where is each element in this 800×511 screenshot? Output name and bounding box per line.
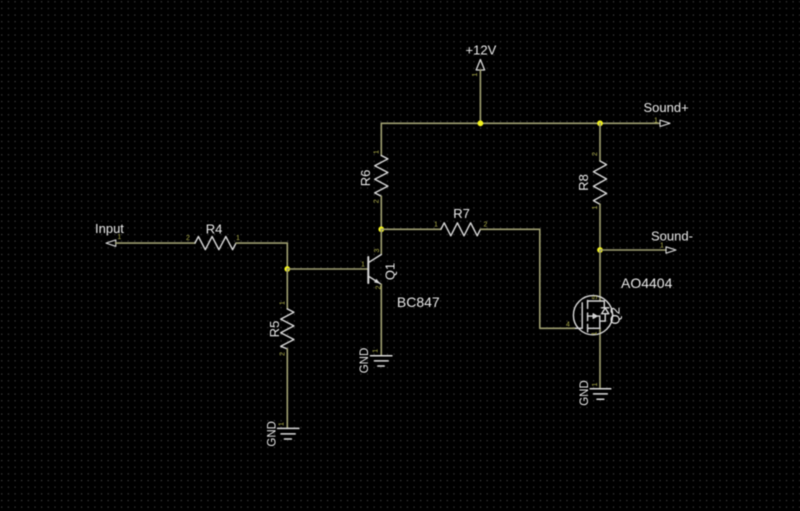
svg-text:2: 2 <box>280 352 287 356</box>
svg-text:GND: GND <box>579 380 591 406</box>
svg-text:1: 1 <box>592 331 599 335</box>
svg-text:1: 1 <box>654 118 658 125</box>
junction R8 / Sound- / Q2 drain <box>597 247 603 253</box>
svg-text:1: 1 <box>117 234 121 241</box>
resistor R4 <box>116 222 287 250</box>
svg-text:Sound-: Sound- <box>651 229 693 244</box>
resistor R8 <box>576 123 606 250</box>
svg-text:R5: R5 <box>267 321 282 338</box>
power symbol +12V <box>466 43 497 77</box>
wire main horizontal rail <box>381 122 660 124</box>
resistor R6 <box>358 123 388 229</box>
svg-text:2: 2 <box>592 152 599 156</box>
svg-text:2: 2 <box>374 199 381 203</box>
wire +12V stub <box>479 70 481 123</box>
svg-text:1: 1 <box>361 262 365 269</box>
hierarchical label Sound- <box>600 229 693 254</box>
wire Q1 base <box>287 268 367 270</box>
svg-text:R6: R6 <box>358 170 373 187</box>
svg-text:1: 1 <box>592 382 599 386</box>
svg-text:2: 2 <box>186 235 190 242</box>
transistor Q2 (MOSFET AO4404) <box>566 275 673 335</box>
svg-text:R7: R7 <box>453 206 470 221</box>
svg-text:3: 3 <box>374 248 381 252</box>
svg-text:2: 2 <box>376 285 383 289</box>
svg-text:Sound+: Sound+ <box>644 100 689 115</box>
ground GND (Q2 source) <box>579 380 611 406</box>
svg-text:1: 1 <box>280 301 287 305</box>
svg-text:1: 1 <box>236 235 240 242</box>
svg-text:1: 1 <box>472 73 479 77</box>
svg-text:GND: GND <box>267 421 279 447</box>
svg-text:1: 1 <box>374 150 381 154</box>
svg-text:R8: R8 <box>576 174 591 191</box>
svg-text:+12V: +12V <box>466 43 497 58</box>
transistor Q1 <box>361 229 440 355</box>
svg-text:1: 1 <box>434 222 438 229</box>
svg-text:R4: R4 <box>206 222 223 237</box>
wire Q2 drain <box>599 250 601 301</box>
svg-text:1: 1 <box>279 422 286 426</box>
ground GND (R5) <box>267 421 299 447</box>
resistor R5 <box>267 269 294 428</box>
svg-text:BC847: BC847 <box>397 294 440 310</box>
svg-text:2: 2 <box>484 222 488 229</box>
wire R4 corner down <box>286 243 288 269</box>
svg-text:Q2: Q2 <box>607 307 622 324</box>
svg-text:AO4404: AO4404 <box>621 275 673 291</box>
svg-text:Q1: Q1 <box>383 263 398 280</box>
svg-text:4: 4 <box>566 322 570 329</box>
wire R7 to gate corner <box>540 229 576 328</box>
junction R4 / R5 / Q1 base <box>284 266 290 272</box>
svg-text:1: 1 <box>660 243 664 250</box>
ground GND (Q1 emitter) <box>359 348 392 374</box>
svg-text:5: 5 <box>592 295 599 299</box>
svg-text:1: 1 <box>373 349 380 353</box>
junction +12V / rail <box>478 120 484 126</box>
junction R6 / R7 / Q1 <box>378 226 384 232</box>
svg-text:GND: GND <box>359 348 371 374</box>
svg-text:1: 1 <box>592 205 599 209</box>
junction rail / R8 <box>597 120 603 126</box>
wire Q2 source <box>599 328 601 389</box>
hierarchical label Input <box>95 221 124 246</box>
hierarchical label Sound+ <box>644 100 689 127</box>
resistor R7 <box>381 206 540 236</box>
